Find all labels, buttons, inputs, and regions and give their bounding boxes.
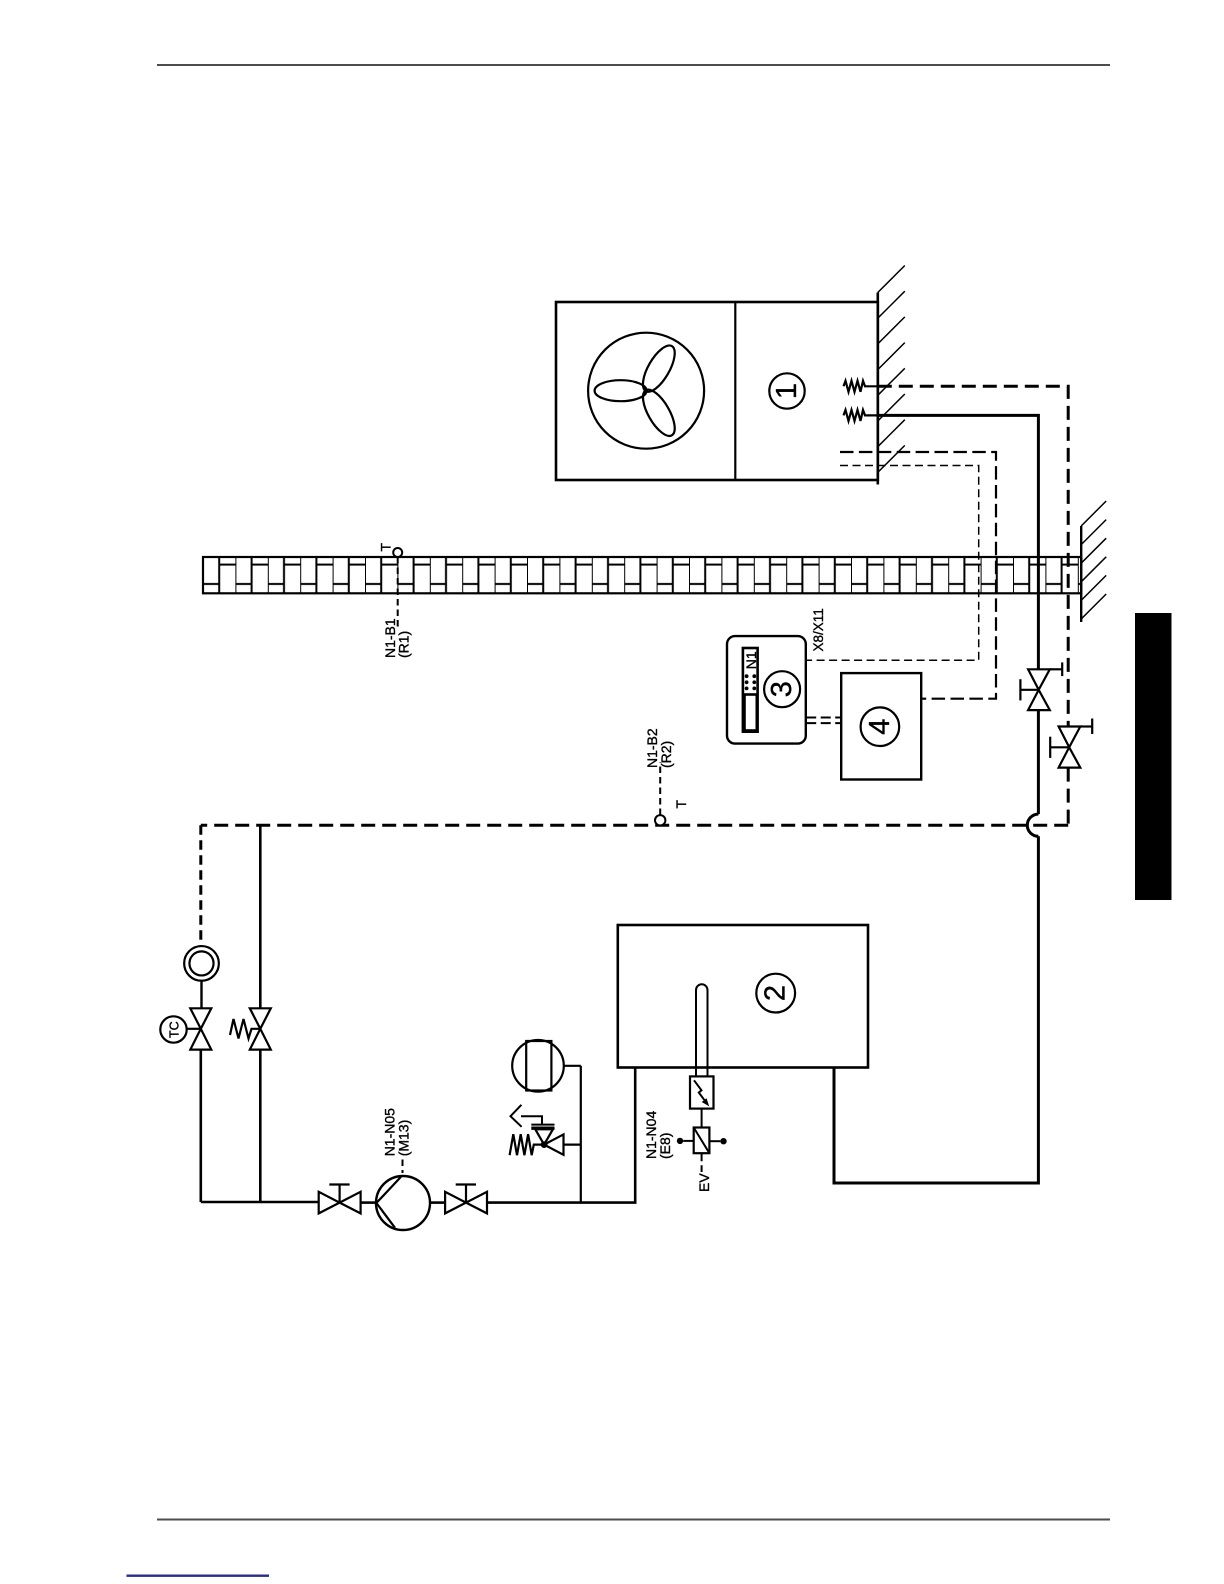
black side tab (1135, 613, 1172, 900)
circled 1 (769, 373, 804, 408)
safety valve (510, 1105, 581, 1155)
svg-text:(R1): (R1) (396, 631, 412, 658)
hop crossing over dashed line (1027, 814, 1038, 836)
top rule (157, 64, 1110, 66)
shutoff valve left of pump (319, 1185, 361, 1214)
vibration damper spring bottom (844, 410, 878, 421)
controller 3 (N1 manager) (727, 636, 806, 744)
pipe below TC valve (200, 1050, 203, 1202)
svg-text:(M13): (M13) (396, 1120, 412, 1157)
svg-text:X8/X11: X8/X11 (811, 608, 826, 651)
svg-text:(R2): (R2) (658, 741, 674, 768)
pressure gauge double circle (184, 946, 219, 1008)
wall behind unit 1 (878, 266, 905, 485)
fan circle (588, 333, 704, 449)
sensor N1-B2 (R2) on return pipe (644, 728, 689, 825)
immersion heater rod (696, 984, 708, 1076)
solid pipe from unit (878, 415, 1039, 669)
EV wire below (701, 1153, 703, 1172)
svg-text:T: T (377, 543, 393, 552)
expansion vessel (512, 1040, 581, 1202)
svg-text:N1: N1 (743, 651, 759, 669)
overflow valve (spring loaded) (230, 826, 271, 1202)
tank 2 (hot water cylinder) (618, 925, 868, 1068)
fan blade upper right (637, 341, 681, 397)
solid pipe continues to tank (834, 836, 1038, 1183)
dashed pipe from unit (long-dash heating line) (878, 386, 1068, 726)
svg-text:T: T (673, 800, 689, 809)
heater element box with arrow (690, 1076, 714, 1108)
vibration damper spring top (844, 381, 878, 392)
pump N1-N05 (M13) (376, 1176, 430, 1230)
sensor N1-B1 (R1) on wall band (377, 543, 411, 659)
svg-text:1: 1 (771, 383, 803, 399)
link underline (blue) (127, 1575, 270, 1577)
leader to pump label (402, 1160, 404, 1174)
svg-text:3: 3 (766, 681, 798, 697)
svg-text:(E8): (E8) (657, 1133, 673, 1159)
thermostatic valve TC (160, 1008, 211, 1049)
bottom rule (157, 1519, 1110, 1521)
connector between heater boxes (701, 1109, 703, 1128)
svg-text:TC: TC (167, 1021, 181, 1038)
wall at right end of band (1081, 501, 1106, 622)
bottom pipe (201, 1201, 319, 1204)
wire to box 4 (medium dash) (840, 452, 996, 699)
wall band (masonry) (203, 557, 1081, 593)
fill/drain valve on dashed pipe (1050, 719, 1092, 768)
contactor box E8 (677, 1128, 727, 1154)
fan blade lower right (637, 385, 681, 441)
svg-text:2: 2 (760, 985, 792, 1001)
svg-text:EV: EV (696, 1173, 712, 1192)
unit 1 outdoor heat pump box (556, 302, 878, 480)
dashed drop to gauge (199, 825, 202, 946)
box 4 (841, 673, 921, 779)
bus connector between 3 and 4 (double dashed) (806, 717, 841, 719)
wire X8/X11 to controller (thin dash) (806, 466, 979, 661)
svg-text:4: 4 (864, 719, 896, 735)
shutoff valve right of pump (445, 1185, 487, 1214)
dashed return pipe (main horizontal) (201, 824, 1068, 827)
fill/drain valve on solid pipe (1020, 662, 1062, 710)
fan blade left (595, 380, 647, 401)
